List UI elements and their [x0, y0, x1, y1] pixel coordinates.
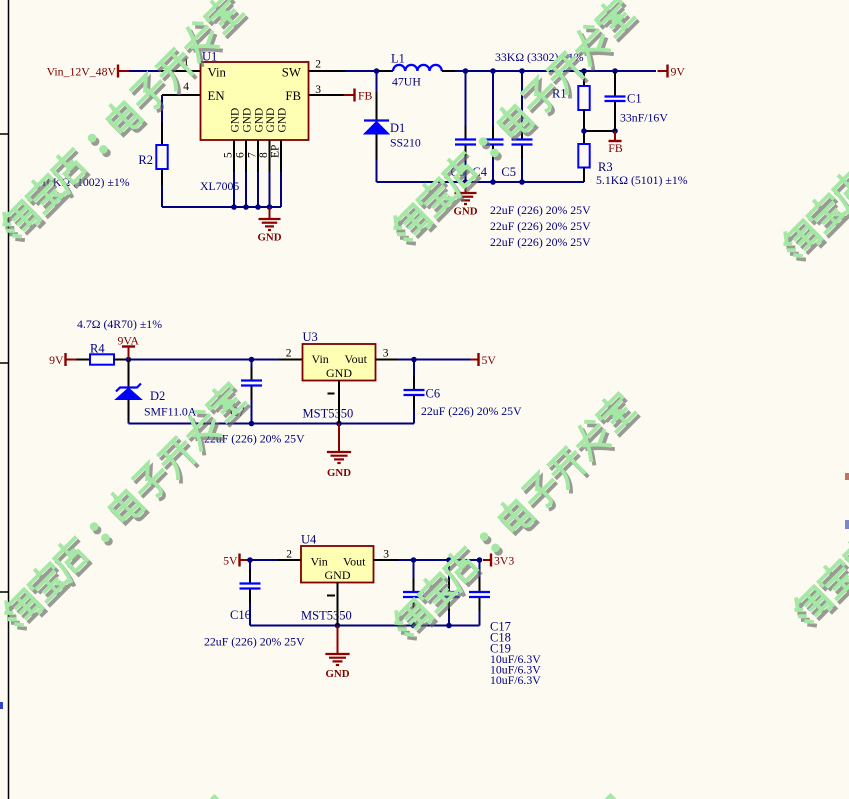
svg-text:SS210: SS210: [390, 136, 421, 150]
svg-text:GND: GND: [454, 206, 478, 218]
svg-text:10uF/6.3V: 10uF/6.3V: [490, 673, 541, 687]
svg-text:EN: EN: [208, 89, 225, 103]
svg-text:R4: R4: [90, 342, 105, 356]
svg-text:FB: FB: [608, 141, 623, 155]
svg-text:MST5350: MST5350: [303, 407, 354, 421]
svg-text:Vout: Vout: [343, 555, 366, 569]
svg-text:U3: U3: [303, 330, 318, 344]
svg-text:XL7005: XL7005: [200, 179, 239, 193]
svg-text:D2: D2: [150, 389, 165, 403]
svg-text:22uF (226) 20% 25V: 22uF (226) 20% 25V: [490, 203, 591, 217]
svg-text:8: 8: [258, 152, 270, 158]
svg-text:6: 6: [235, 152, 247, 158]
svg-text:7: 7: [247, 152, 259, 158]
svg-text:SW: SW: [282, 66, 302, 80]
svg-text:Vin: Vin: [312, 352, 329, 366]
svg-text:GND: GND: [254, 108, 266, 133]
svg-text:EP: EP: [270, 145, 282, 158]
svg-text:FB: FB: [285, 89, 301, 103]
svg-text:C16: C16: [230, 608, 251, 622]
svg-text:GND: GND: [277, 108, 289, 133]
svg-text:D1: D1: [390, 121, 405, 135]
svg-text:MST5350: MST5350: [301, 609, 352, 623]
svg-text:2: 2: [315, 59, 321, 71]
svg-text:9V: 9V: [671, 64, 686, 78]
svg-text:5V: 5V: [482, 353, 497, 367]
svg-text:GND: GND: [326, 366, 352, 380]
svg-text:22uF (226) 20% 25V: 22uF (226) 20% 25V: [490, 235, 591, 249]
svg-text:22uF (226) 20% 25V: 22uF (226) 20% 25V: [421, 404, 522, 418]
svg-text:R2: R2: [138, 153, 153, 167]
svg-text:5: 5: [223, 152, 235, 158]
svg-text:2: 2: [286, 348, 292, 360]
svg-text:C1: C1: [627, 92, 642, 106]
svg-text:GND: GND: [265, 108, 277, 133]
svg-text:22uF (226) 20% 25V: 22uF (226) 20% 25V: [204, 635, 305, 649]
svg-text:2: 2: [286, 549, 292, 561]
svg-text:3: 3: [383, 348, 389, 360]
svg-text:Vin: Vin: [208, 66, 227, 80]
svg-text:L1: L1: [391, 52, 405, 66]
svg-text:U4: U4: [301, 533, 317, 547]
svg-text:5.1KΩ (5101) ±1%: 5.1KΩ (5101) ±1%: [596, 173, 688, 187]
svg-text:Vout: Vout: [345, 352, 368, 366]
svg-text:22uF (226) 20% 25V: 22uF (226) 20% 25V: [490, 219, 591, 233]
svg-text:GND: GND: [326, 668, 350, 680]
svg-text:C6: C6: [426, 387, 441, 401]
svg-text:5V: 5V: [223, 553, 238, 567]
svg-text:GND: GND: [325, 568, 351, 582]
svg-text:Vin: Vin: [311, 555, 328, 569]
svg-text:33nF/16V: 33nF/16V: [620, 111, 668, 125]
svg-text:Vin_12V_48V: Vin_12V_48V: [47, 64, 117, 78]
svg-text:FB: FB: [358, 89, 373, 103]
svg-text:3: 3: [383, 549, 389, 561]
svg-text:C5: C5: [501, 165, 516, 179]
svg-text:GND: GND: [258, 232, 282, 244]
svg-text:3: 3: [315, 84, 321, 96]
svg-text:9V: 9V: [49, 353, 64, 367]
svg-text:9VA: 9VA: [118, 334, 140, 348]
svg-text:4: 4: [183, 81, 189, 93]
svg-text:4.7Ω (4R70) ±1%: 4.7Ω (4R70) ±1%: [77, 317, 162, 331]
svg-text:R3: R3: [598, 160, 613, 174]
svg-text:47UH: 47UH: [392, 75, 421, 89]
svg-text:GND: GND: [327, 467, 351, 479]
svg-text:GND: GND: [230, 108, 242, 133]
svg-text:GND: GND: [242, 108, 254, 133]
